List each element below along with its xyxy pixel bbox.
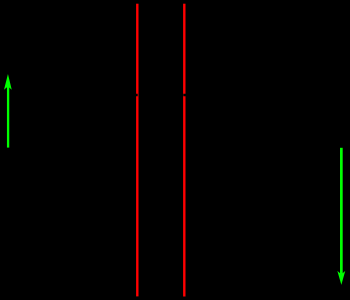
current arrow I1 (left, green, pointing up) <box>4 74 12 148</box>
capacitor plate P2 (right, red) <box>183 4 185 297</box>
capacitor plate P1 (left, red) <box>136 4 138 297</box>
wire W3 (left vertical branch) <box>7 95 10 270</box>
wire W2 (right horizontal lead from plate P2) <box>183 94 345 97</box>
wire W5 (right vertical branch) <box>340 95 343 270</box>
current arrow I2 (right, green, pointing down) <box>337 148 345 285</box>
wire W4 (bottom return wire) <box>8 269 341 272</box>
wire W1 (left horizontal lead to plate P1) <box>0 94 138 97</box>
